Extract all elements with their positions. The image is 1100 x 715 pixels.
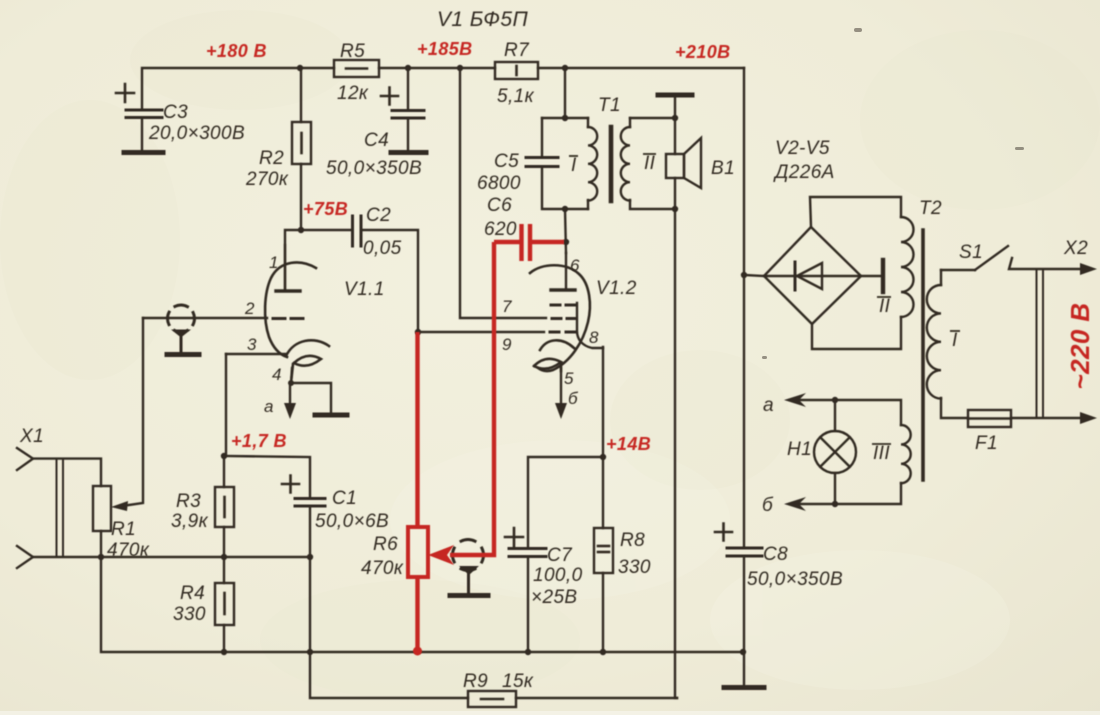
svg-text:X2: X2 — [1063, 238, 1088, 259]
shield ring on V1.1 grid wire — [168, 305, 195, 332]
svg-text:8: 8 — [589, 328, 599, 347]
connector X2 bottom arrow — [1080, 412, 1097, 424]
wire: +14V node to C7 — [528, 457, 603, 547]
node: C7 bottom on rail — [525, 649, 531, 655]
svg-text:R2: R2 — [259, 148, 284, 169]
node: R4 bottom on rail — [221, 649, 227, 655]
svg-text:5: 5 — [564, 369, 574, 388]
svg-text:F1: F1 — [975, 433, 998, 454]
transformer T2 winding I — [927, 270, 968, 418]
wire: pin 4 to chassis — [291, 383, 331, 413]
wire: speaker line down to R9 bus — [675, 209, 677, 698]
svg-text:I: I — [952, 330, 958, 351]
svg-text:50,0×350В: 50,0×350В — [747, 569, 843, 590]
svg-text:C7: C7 — [547, 545, 573, 566]
node: red endpoint on rail — [413, 647, 422, 656]
resistor R4 — [215, 557, 234, 652]
svg-text:50,0×350В: 50,0×350В — [326, 158, 422, 179]
node: +14V junction — [600, 454, 606, 460]
svg-text:3,9к: 3,9к — [171, 511, 209, 532]
connector X1 blades — [57, 459, 64, 557]
wire: rail R5 to R7 — [379, 67, 495, 69]
svg-text:R4: R4 — [180, 583, 205, 604]
resistor R8 — [594, 457, 613, 652]
svg-text:9: 9 — [502, 335, 512, 354]
wire: +75V node to C2 — [301, 229, 351, 231]
node: anode / C6 junction — [563, 239, 569, 245]
wire: red grid node down to R6 — [415, 332, 419, 527]
tube V1.2 anode — [551, 253, 575, 290]
speaker B1 — [666, 118, 701, 209]
shield ground symbol — [167, 330, 199, 355]
svg-text:4: 4 — [272, 365, 282, 384]
node: T1 top feed — [562, 115, 568, 121]
svg-text:I: I — [571, 155, 577, 176]
wire: C2 to grid node of V1.2 — [361, 230, 418, 331]
node: screen-grid feed junction — [457, 65, 463, 71]
wire: secondary top — [629, 118, 631, 127]
svg-text:6800: 6800 — [477, 173, 521, 194]
svg-text:II: II — [879, 296, 891, 317]
capacitor C2 — [353, 216, 362, 246]
svg-text:II: II — [644, 153, 656, 174]
svg-text:C6: C6 — [487, 195, 512, 216]
svg-text:50,0×6В: 50,0×6В — [315, 511, 389, 532]
svg-text:C2: C2 — [366, 205, 391, 226]
connector X1 bottom pin — [17, 546, 33, 568]
resistor R2 — [292, 68, 311, 230]
transformer T1 core — [609, 127, 614, 201]
node: R2 top junction — [297, 65, 303, 71]
svg-text:T2: T2 — [919, 198, 942, 219]
svg-text:270к: 270к — [245, 169, 289, 190]
svg-text:0,05: 0,05 — [363, 238, 402, 259]
svg-text:R6: R6 — [373, 534, 398, 555]
wire: R6 bottom to ground rail (red) — [415, 577, 419, 651]
svg-text:R3: R3 — [176, 491, 201, 512]
capacitor C8 — [715, 524, 762, 687]
node: C8 on ground rail — [740, 649, 746, 655]
svg-text:S1: S1 — [959, 242, 983, 263]
overlines for roman numerals — [569, 154, 960, 444]
capacitor C4 — [381, 68, 424, 150]
svg-text:2: 2 — [244, 299, 255, 318]
svg-text:В1: В1 — [711, 158, 735, 179]
svg-text:~220 В: ~220 В — [1065, 303, 1095, 390]
svg-text:+180 В: +180 В — [206, 41, 267, 61]
node: speaker top — [672, 115, 678, 121]
bridge rectifier V2-V5 — [744, 227, 883, 324]
wire: grid wire down to R1 wiper — [122, 318, 143, 506]
chassis bar above speaker — [658, 95, 692, 118]
fuse F1 — [968, 410, 1081, 427]
svg-text:C8: C8 — [763, 544, 788, 565]
svg-text:12к: 12к — [337, 83, 369, 104]
heater point б arrow — [784, 497, 835, 511]
connector X1 top pin — [17, 448, 33, 470]
node: bridge + junction — [741, 272, 747, 278]
transformer T1 primary loop — [542, 68, 588, 209]
wire: vertical feed to pin 7 of V1.2 — [460, 68, 546, 318]
svg-text:470к: 470к — [361, 558, 404, 579]
node: R1 bottom — [98, 554, 104, 560]
wire: pin 8 down to +14V node — [602, 347, 604, 457]
resistor R5 — [334, 60, 379, 77]
svg-text:б: б — [568, 389, 579, 408]
svg-text:R1: R1 — [111, 519, 136, 540]
svg-text:C5: C5 — [494, 151, 519, 172]
shield ring on feedback wire — [453, 540, 484, 571]
node: V1.2 grid node (C2 / R6) — [415, 329, 421, 335]
wire: cathode pin 3 of V1.1 — [226, 353, 286, 355]
wire: red drop from C6 to R6 wiper — [450, 242, 494, 555]
node: C4 junction — [405, 65, 411, 71]
svg-text:+185В: +185В — [417, 39, 473, 59]
svg-text:a: a — [264, 397, 274, 416]
svg-text:R5: R5 — [340, 41, 365, 62]
svg-text:5,1к: 5,1к — [497, 86, 535, 107]
wire: X1 top pin to R1 — [33, 459, 101, 486]
svg-text:6: 6 — [570, 256, 580, 275]
svg-text:III: III — [873, 443, 890, 464]
svg-text:330: 330 — [618, 557, 651, 578]
svg-text:Д226А: Д226А — [773, 162, 835, 183]
wire: C1 bottom down to R9 bus — [310, 557, 468, 698]
svg-text:+1,7 В: +1,7 В — [231, 431, 287, 451]
svg-text:R8: R8 — [620, 530, 645, 551]
svg-text:+210В: +210В — [675, 42, 731, 62]
svg-text:Н1: Н1 — [787, 439, 812, 460]
svg-text:C4: C4 — [364, 130, 389, 151]
svg-text:15к: 15к — [502, 671, 534, 692]
svg-text:б: б — [762, 495, 774, 516]
svg-text:C1: C1 — [332, 488, 357, 509]
node: C1 bottom — [307, 554, 313, 560]
ground chassis bar under C8 — [724, 685, 764, 690]
capacitor C5 — [526, 158, 558, 167]
wire: +75V node to V1.1 anode — [285, 230, 301, 290]
node: +1,7V junction — [221, 453, 227, 459]
pin numbers V1.1 — [244, 253, 282, 416]
R1 wiper arrowhead — [111, 501, 128, 511]
transformer T2 winding III — [835, 400, 911, 504]
svg-text:V1.1: V1.1 — [344, 279, 385, 300]
pin numbers V1.2 — [502, 256, 599, 408]
wire: +1,7 node to C1 — [224, 456, 310, 497]
svg-text:3: 3 — [247, 335, 257, 354]
wire: R1 bottom to ground rail — [101, 557, 224, 652]
node: R3/R4 junction — [221, 554, 227, 560]
svg-text:+75В: +75В — [303, 199, 348, 219]
svg-text:X1: X1 — [19, 426, 44, 447]
red wiper arrowhead — [428, 545, 454, 565]
wire: +180V top rail from C3 to R5 — [142, 68, 334, 109]
svg-text:×25В: ×25В — [531, 587, 578, 608]
lamp H1 — [814, 400, 856, 504]
resistor R7 — [495, 62, 538, 79]
capacitor C6 (red) — [494, 224, 564, 261]
svg-text:V1 БФ5П: V1 БФ5П — [437, 8, 528, 31]
tube V1.1 grid dashes — [273, 317, 303, 320]
shield ground symbol at R6 — [450, 566, 488, 596]
node: +75V junction — [298, 227, 304, 233]
svg-text:7: 7 — [502, 297, 512, 316]
node: R8 bottom on rail — [600, 649, 606, 655]
scan speckles — [762, 28, 1024, 359]
node: crossing junction on ground rail — [307, 649, 313, 655]
tube V1.2 envelope — [530, 265, 590, 371]
connector X2 blades — [1037, 270, 1044, 418]
wire: secondary bottom — [630, 200, 675, 209]
node: speaker bottom — [672, 206, 678, 212]
svg-text:+14В: +14В — [606, 434, 651, 454]
svg-text:a: a — [763, 395, 774, 416]
svg-text:620: 620 — [484, 219, 517, 240]
svg-text:330: 330 — [173, 604, 206, 625]
red feedback path — [408, 224, 564, 656]
svg-text:V2-V5: V2-V5 — [775, 138, 830, 159]
transformer T2 core — [921, 230, 925, 480]
heater point a arrow — [784, 393, 835, 407]
transformer T2 winding II — [901, 217, 914, 317]
ground chassis bar under C3 — [124, 150, 163, 155]
tube V1.2 grid dashes — [550, 305, 576, 332]
wire: lower bus left section — [101, 556, 310, 558]
wire: bridge AC bottom to T2 winding II — [812, 317, 901, 349]
wire: cathode R3 branch — [224, 354, 226, 456]
tube V1.2 grid tie and pin 8 — [577, 303, 603, 348]
resistor R3 — [215, 456, 234, 557]
wire: X1 bottom pin to R1 bottom — [33, 556, 101, 558]
svg-text:R9: R9 — [463, 671, 488, 692]
wire: T1 bottom to anode node — [565, 209, 566, 253]
tube V1.1 anode — [276, 245, 300, 291]
capacitor C3 — [116, 84, 162, 151]
transformer T1 winding I — [588, 127, 597, 201]
svg-text:470к: 470к — [107, 540, 150, 561]
svg-text:100,0: 100,0 — [533, 565, 583, 586]
wire: rail R7 to +210 corner — [538, 67, 744, 69]
svg-text:R7: R7 — [504, 40, 530, 61]
transformer T1 winding II — [621, 127, 630, 201]
wire: grid pin 2 of V1.1 — [143, 317, 267, 319]
wire: bridge AC top to T2 winding II — [810, 197, 901, 227]
svg-text:T1: T1 — [598, 95, 621, 116]
svg-text:V1.2: V1.2 — [596, 278, 637, 299]
tube V1.2 cathode — [534, 340, 574, 371]
node: cathode pin 4 junction — [288, 380, 294, 386]
wire: +210V drop — [743, 68, 745, 547]
heater arrow a of V1.1 — [284, 383, 296, 419]
node: lamp bottom — [832, 501, 838, 507]
node: lamp top — [832, 397, 838, 403]
node: T1 bottom feed — [562, 206, 568, 212]
ground chassis bar near V1.1 — [315, 413, 347, 418]
ground chassis bar under C4 — [391, 150, 426, 155]
tube V1.1 envelope — [265, 262, 316, 357]
potentiometer R1 — [93, 486, 111, 557]
tube V1.1 cathode — [286, 340, 329, 383]
capacitor C1 — [282, 476, 325, 558]
potentiometer R6 (red) — [408, 527, 428, 577]
capacitor C7 — [505, 528, 546, 652]
svg-text:C3: C3 — [163, 102, 188, 123]
node: T1 feed on rail — [562, 65, 568, 71]
connector X2 top arrow — [1080, 263, 1097, 275]
resistor R9 — [468, 691, 677, 707]
heater arrow б of V1.2 — [555, 368, 567, 419]
wire: grid node to pin 9 — [418, 331, 544, 333]
svg-text:20,0×300В: 20,0×300В — [148, 123, 245, 144]
svg-text:1: 1 — [269, 253, 279, 272]
switch S1 — [941, 246, 1081, 270]
wire: main ground rail — [224, 651, 743, 653]
